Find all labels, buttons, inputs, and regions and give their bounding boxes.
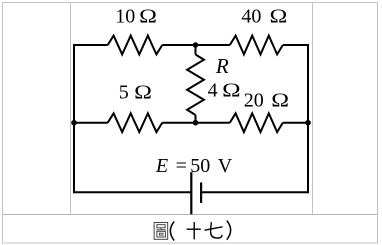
caption 圖(十七) — [154, 221, 231, 241]
svg-text:Ω: Ω — [139, 6, 157, 28]
battery E short plate — [200, 182, 202, 203]
resistor R4 20Ω zigzag — [230, 113, 283, 132]
wire middle-right segment — [283, 122, 308, 124]
wire top-left segment — [74, 44, 108, 46]
wire bottom-right segment — [201, 191, 308, 193]
svg-text:5: 5 — [119, 81, 129, 103]
node junction middle-right — [305, 120, 311, 126]
svg-text:40: 40 — [241, 6, 261, 28]
wire center branch top lead — [195, 45, 197, 55]
node junction middle-left — [71, 120, 77, 126]
svg-text:Ω: Ω — [222, 80, 241, 102]
wire left vertical — [73, 44, 75, 193]
svg-text:10: 10 — [115, 6, 135, 28]
caption paren ( — [170, 222, 174, 241]
label 20 Ω — [244, 90, 289, 112]
svg-text:V: V — [218, 155, 233, 177]
resistor R1 10Ω zigzag — [108, 36, 163, 55]
wire bottom-left segment — [74, 191, 191, 193]
label 40 Ω — [241, 6, 287, 28]
wire middle-left segment — [74, 122, 108, 124]
wire top-right segment — [283, 44, 308, 46]
node junction top-center — [193, 42, 199, 48]
svg-text:=: = — [176, 155, 187, 177]
caption paren ) — [227, 221, 231, 240]
resistor R2 40Ω zigzag — [230, 36, 283, 55]
svg-text:20: 20 — [244, 90, 264, 112]
caption glyph 十 — [187, 222, 201, 239]
node junction middle-center — [193, 120, 199, 126]
svg-text:E: E — [155, 155, 168, 177]
label 10 Ω — [115, 6, 157, 28]
battery E long plate — [190, 172, 192, 214]
caption glyph 七 — [205, 222, 223, 238]
label E = 50 V — [155, 155, 233, 177]
resistor R 4Ω vertical zigzag — [187, 55, 204, 116]
wire middle-center segment — [162, 122, 230, 124]
svg-text:50: 50 — [190, 155, 210, 177]
svg-text:4: 4 — [208, 80, 218, 102]
resistor R3 5Ω zigzag — [108, 113, 163, 132]
svg-text:R: R — [215, 54, 229, 78]
svg-text:Ω: Ω — [270, 6, 288, 28]
wire top-middle segment — [162, 44, 230, 46]
caption glyph 圖 — [154, 223, 168, 240]
svg-text:Ω: Ω — [271, 90, 289, 112]
label 5 Ω — [119, 81, 152, 103]
label 4 Ω — [208, 80, 241, 102]
wire center branch bottom lead — [195, 115, 197, 123]
frame divider (decorative) — [3, 214, 378, 216]
wire right vertical — [307, 44, 309, 193]
svg-text:Ω: Ω — [134, 81, 152, 103]
